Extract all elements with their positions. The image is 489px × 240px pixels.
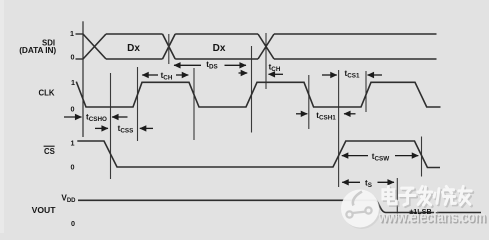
svg-text:0: 0 — [71, 105, 75, 114]
timing tCSW right arrow — [395, 155, 418, 157]
SDI bus waveform: crossover X1 — [83, 34, 106, 59]
timing tCSS right arrow — [140, 127, 153, 129]
svg-text:1: 1 — [71, 139, 75, 148]
marker line at x=137.5 (CLK rise 1 / tCSS-tCH boundary) — [137, 67, 139, 141]
svg-text:0: 0 — [71, 53, 75, 62]
timing tCSHO left arrow — [64, 116, 82, 118]
marker line at x=397.3 (VOUT settled / tS boundary) — [396, 178, 398, 216]
svg-text:1: 1 — [71, 78, 75, 87]
SDI bus rails segment 1 — [106, 34, 163, 59]
left edge light strip — [0, 0, 4, 233]
signal label SDI (DATA IN) — [19, 39, 56, 56]
CS waveform — [77, 141, 440, 168]
timing tCSH1 right arrow — [344, 113, 356, 115]
svg-text:Dx: Dx — [213, 43, 226, 54]
SDI tick at level 1 — [76, 33, 84, 35]
chinese watermark strokes — [383, 186, 471, 204]
svg-text:VOUT: VOUT — [32, 205, 57, 215]
timing tS left arrow — [342, 181, 360, 183]
timing tCH right arrow — [176, 74, 188, 76]
timing tDS right arrow — [225, 64, 247, 66]
SDI bus rails segment 3 — [274, 34, 437, 59]
timing tCH2 right arrow — [269, 73, 284, 75]
marker line at x=338.6 (CS rise / tCSH1-tCS1-tCSW-tS boundary) — [338, 70, 340, 187]
svg-text:±1LSB: ±1LSB — [409, 207, 431, 216]
marker line at x=366 (CLK rise 3 / tCS1 boundary) — [365, 71, 367, 112]
VOUT waveform — [78, 200, 481, 212]
svg-text:www.elecfans.com: www.elecfans.com — [378, 208, 486, 226]
timing tS right arrow — [378, 181, 395, 183]
marker line at x=421.5 (CS fall 2 / tCSW boundary) — [421, 137, 423, 177]
timing tCSH1 left arrow — [296, 113, 307, 115]
SDI bus crossover X2 — [163, 34, 176, 59]
svg-text:CS: CS — [44, 147, 55, 156]
crossover X2 vertical line — [168, 34, 170, 64]
SDI bus crossover X3 — [258, 34, 274, 59]
timing tCSS left arrow — [95, 127, 108, 129]
marker line at x=110.5 (CS fall / tCSHO-tCSS boundary) — [110, 73, 112, 179]
marker line at x=194 (CLK fall 2 / tCH boundary) — [193, 68, 195, 140]
SDI bus rails segment 2 — [175, 34, 258, 59]
timing tCH left arrow — [142, 74, 158, 76]
chinese watermark shadow — [384, 188, 472, 206]
timing tCSW left arrow — [342, 155, 368, 157]
svg-text:(DATA IN): (DATA IN) — [19, 45, 56, 55]
svg-text:0: 0 — [71, 163, 75, 172]
watermark logo circle — [341, 190, 381, 230]
timing tCH2 left arrow — [239, 72, 248, 74]
marker line at x=251.5 (CLK rise 2 / tDS-tCH2 boundary) — [251, 46, 253, 133]
watermark url www.elecfans.com — [378, 208, 488, 227]
vertical axis line — [82, 21, 84, 137]
CLK waveform — [76, 82, 440, 107]
SDI tick at level 0 — [76, 58, 84, 60]
svg-text:1: 1 — [70, 29, 74, 38]
svg-text:Dx: Dx — [127, 43, 140, 54]
timing tCS1 left arrow — [322, 74, 337, 76]
svg-text:0: 0 — [71, 219, 75, 228]
timing tDS left arrow — [174, 64, 201, 66]
signal label CS with overline — [44, 146, 55, 156]
marker line at x=266 (SDI crossover 3 / tCH2 boundary) — [265, 33, 267, 89]
timing tCSHO right arrow — [112, 116, 128, 118]
svg-text:CLK: CLK — [38, 89, 54, 98]
marker line at x=308.8 (CLK fall 3 / tCSH1 boundary) — [308, 75, 310, 129]
timing tCS1 right arrow — [368, 74, 383, 76]
